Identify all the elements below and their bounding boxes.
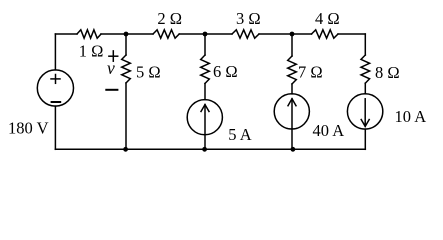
svg-text:v: v bbox=[107, 58, 115, 78]
wire node A bottom lead bbox=[125, 83, 127, 149]
resistor R1 1ohm bbox=[77, 30, 101, 38]
resistor R6 6ohm bbox=[201, 55, 210, 84]
wire node B top lead bbox=[204, 34, 206, 55]
wire R7 to current source I2 bbox=[291, 84, 293, 94]
wire top rail segment B-C bbox=[179, 33, 232, 35]
resistor R8 8ohm bbox=[361, 55, 370, 83]
current source I1 5A circle bbox=[187, 100, 222, 135]
voltage source V1 circle bbox=[37, 70, 73, 106]
wire bottom rail bbox=[55, 148, 365, 150]
label 180 V bbox=[8, 118, 49, 137]
label 10 A bbox=[395, 107, 427, 126]
resistor R2 2ohm bbox=[153, 30, 179, 38]
wire left branch upper bbox=[54, 34, 56, 70]
svg-text:10 A: 10 A bbox=[395, 107, 427, 126]
current source I2 arrow up bbox=[288, 99, 296, 129]
svg-text:2 Ω: 2 Ω bbox=[157, 9, 182, 28]
voltage source plus sign bbox=[51, 75, 60, 84]
resistor R3 3ohm bbox=[232, 30, 259, 38]
svg-text:5 Ω: 5 Ω bbox=[136, 62, 161, 81]
node dot A top bbox=[124, 32, 129, 37]
wire I1 to bottom rail bbox=[204, 135, 206, 150]
current source I3 arrow down bbox=[361, 99, 369, 127]
svg-text:5 A: 5 A bbox=[228, 125, 251, 144]
label 5 ohm bbox=[136, 62, 161, 81]
node dot C bottom bbox=[291, 147, 296, 152]
wire top rail segment C-D bbox=[259, 33, 312, 35]
svg-text:3 Ω: 3 Ω bbox=[236, 9, 261, 28]
node dot C top bbox=[290, 32, 295, 37]
plus sign of v marker bbox=[109, 51, 118, 61]
svg-text:6 Ω: 6 Ω bbox=[213, 62, 238, 81]
wire R8 to current source I3 bbox=[364, 83, 366, 94]
svg-text:4 Ω: 4 Ω bbox=[315, 9, 340, 28]
label 2 ohm bbox=[157, 9, 182, 28]
label 40 A bbox=[313, 121, 345, 140]
label 6 ohm bbox=[213, 62, 238, 81]
wire left branch lower bbox=[54, 106, 56, 149]
wire top rail segment A-B bbox=[101, 33, 153, 35]
minus sign of v marker bbox=[106, 89, 117, 91]
wire top rail segment left bbox=[55, 33, 77, 35]
node dot B top bbox=[203, 32, 208, 37]
resistor R5 5ohm bbox=[122, 55, 131, 83]
current source I3 10A circle bbox=[347, 94, 382, 129]
svg-text:7 Ω: 7 Ω bbox=[298, 62, 323, 81]
wire I3 to bottom rail bbox=[364, 129, 366, 149]
label 5 A bbox=[228, 125, 251, 144]
label 7 ohm bbox=[298, 62, 323, 81]
label 4 ohm bbox=[315, 9, 340, 28]
current source I2 40A circle bbox=[274, 94, 309, 129]
voltage source minus sign bbox=[52, 101, 61, 103]
wire node A top lead bbox=[125, 34, 127, 55]
wire R6 to current source I1 bbox=[204, 84, 206, 100]
resistor R4 4ohm bbox=[312, 30, 339, 38]
node dot B bottom bbox=[202, 147, 207, 152]
svg-text:8 Ω: 8 Ω bbox=[375, 63, 400, 82]
label 8 ohm bbox=[375, 63, 400, 82]
label v voltage variable bbox=[107, 58, 115, 78]
svg-text:180 V: 180 V bbox=[8, 118, 49, 137]
resistor R7 7ohm bbox=[288, 56, 297, 84]
wire node C top lead bbox=[291, 34, 293, 56]
label 1 ohm bbox=[79, 42, 104, 61]
current source I1 arrow up bbox=[201, 105, 209, 135]
svg-text:1 Ω: 1 Ω bbox=[79, 42, 104, 61]
wire top rail segment right bbox=[338, 33, 365, 35]
svg-text:40 A: 40 A bbox=[313, 121, 345, 140]
node dot A bottom bbox=[123, 147, 128, 152]
label 3 ohm bbox=[236, 9, 261, 28]
wire I2 to bottom rail bbox=[291, 129, 293, 149]
wire node D top lead bbox=[364, 34, 366, 55]
